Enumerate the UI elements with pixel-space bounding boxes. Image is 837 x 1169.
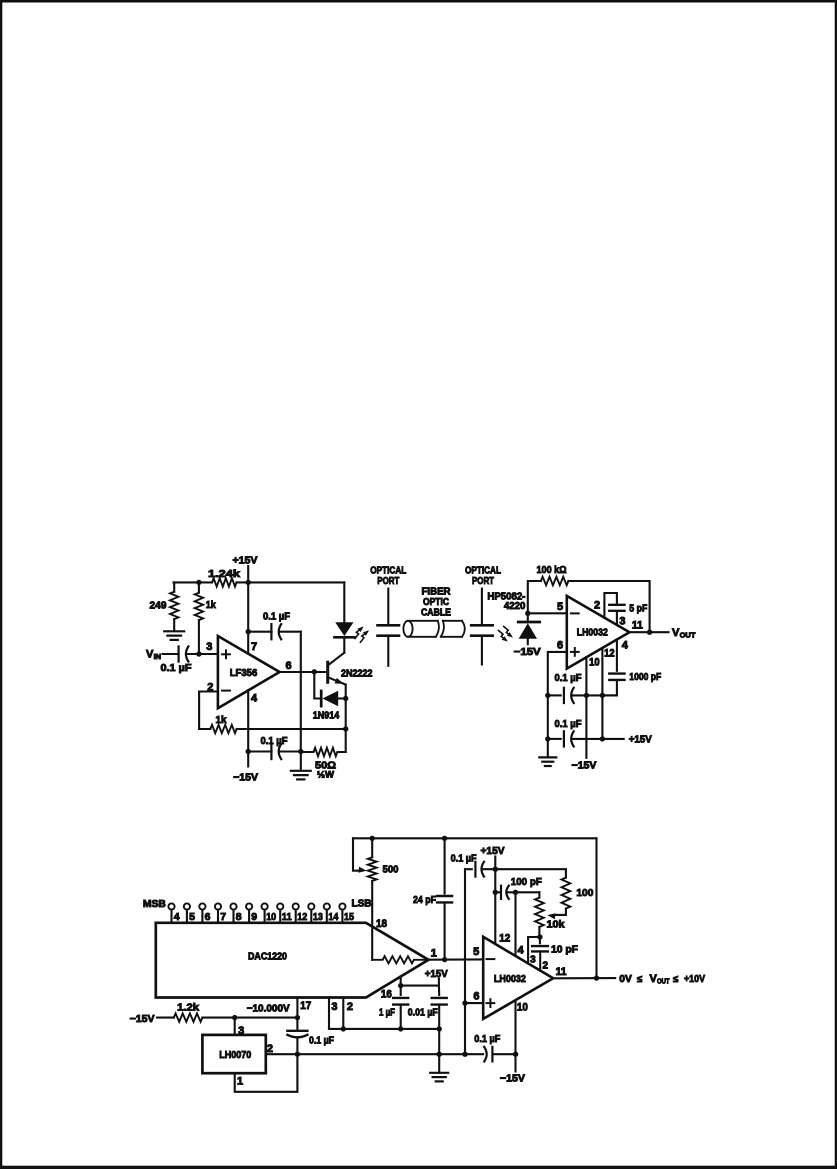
svg-text:11: 11 (282, 911, 292, 923)
node: rail/LH0070 pin3 (232, 1015, 237, 1020)
svg-text:−15V: −15V (572, 760, 597, 772)
svg-text:−15V: −15V (130, 1013, 155, 1025)
pin 11 output (630, 631, 669, 633)
wire pin 6 (548, 652, 567, 696)
op-amp U2 LH0032 (receiver) (567, 596, 630, 669)
svg-text:1.24k: 1.24k (208, 568, 240, 580)
svg-text:½W: ½W (317, 770, 334, 781)
node: pin12/100pF (493, 890, 498, 895)
wire -10.000V rail (202, 1017, 297, 1019)
node: rail/24pF (442, 836, 447, 841)
svg-text:1: 1 (431, 948, 437, 960)
voltage reference U4 LH0070 (202, 1035, 265, 1073)
wire pin 6 (bottom) (465, 1002, 483, 1004)
trim wiper arm (556, 909, 566, 915)
wire emitter vertical (345, 685, 347, 752)
resistor 100 trim (565, 869, 567, 877)
node: output/loop (594, 975, 599, 980)
wire pin 5 input (528, 612, 567, 614)
node: rail/pin12 lower (600, 736, 605, 741)
svg-text:OUT: OUT (680, 630, 696, 639)
svg-text:0.1 µF: 0.1 µF (263, 610, 291, 622)
svg-text:0.1 µF: 0.1 µF (261, 735, 289, 747)
svg-text:9: 9 (251, 911, 257, 923)
capacitor 0.1uF (+15V bypass, bottom) (474, 862, 476, 877)
pin 11 output (bottom) (553, 977, 615, 979)
resistor 1k (input divider) (198, 582, 200, 592)
capacitor 0.1uF (pin7 bypass) (248, 631, 271, 633)
wire pin 4 to -15V (247, 690, 249, 766)
svg-text:LSB: LSB (352, 898, 372, 910)
wire feedback rail to emitter (237, 728, 346, 730)
resistor 1k feedback (210, 725, 236, 733)
node: rail/pin12 (600, 693, 605, 698)
svg-text:0.1 µF: 0.1 µF (451, 852, 478, 864)
fiber optic cable drawing (403, 621, 412, 637)
svg-text:11: 11 (632, 620, 643, 632)
optical port 2 symbol (481, 589, 483, 624)
svg-text:PORT: PORT (377, 575, 399, 587)
svg-text:−10.000V: −10.000V (247, 1003, 290, 1015)
wire pin 2 (DAC) (342, 998, 344, 1029)
wire VIN to coupling cap (163, 653, 178, 655)
wire pin 10 to -15V (bottom) (514, 1000, 516, 1071)
svg-text:3: 3 (206, 641, 212, 653)
capacitor 0.1uF (lower bypass) (563, 731, 565, 746)
node: rail/pin12 (bottom) (493, 867, 498, 872)
svg-text:10: 10 (266, 911, 276, 923)
svg-text:≤: ≤ (673, 974, 678, 985)
wire pin17 to 0.1uF (296, 1018, 298, 1029)
svg-text:PORT: PORT (472, 575, 494, 587)
svg-text:+15V: +15V (233, 554, 258, 566)
node: rail/ground leg (545, 736, 550, 741)
node: emitter/1N914 (343, 696, 348, 701)
svg-text:2N2222: 2N2222 (341, 668, 373, 680)
photodiode HP5082-4220 (527, 613, 529, 621)
svg-text:1.2k: 1.2k (177, 1002, 199, 1014)
internal feedback resistor (372, 956, 428, 963)
reference rail (pin 2) (266, 1053, 483, 1055)
svg-text:12: 12 (499, 933, 510, 945)
wire pin 12 (601, 648, 603, 739)
svg-text:7: 7 (220, 911, 226, 923)
ground (receiver) (547, 739, 549, 758)
svg-text:5: 5 (557, 601, 563, 613)
capacitor 0.1uF (on -15V feed) (484, 1047, 487, 1062)
svg-text:0.1 µF: 0.1 µF (161, 662, 193, 674)
svg-text:24 pF: 24 pF (413, 894, 436, 906)
DAC output wire (429, 958, 484, 960)
right loop wire to output (595, 838, 597, 978)
svg-text:4: 4 (251, 693, 258, 705)
svg-text:5: 5 (189, 911, 195, 923)
wire cap to node 3 (187, 653, 218, 655)
node: vertical/pin6 (462, 1000, 467, 1005)
wire pin 2 feedback loop (199, 692, 218, 730)
node: rail/long vertical (462, 1052, 467, 1057)
svg-text:1000 pF: 1000 pF (629, 671, 661, 683)
svg-text:DAC1220: DAC1220 (248, 950, 287, 962)
svg-text:CABLE: CABLE (421, 607, 451, 619)
capacitor 0.01uF (438, 986, 440, 995)
wire pin7 from +15V rail (247, 582, 249, 653)
wire left vertical to +15V rail (547, 695, 549, 739)
svg-text:6: 6 (285, 660, 291, 672)
svg-text:+15V: +15V (425, 968, 448, 980)
svg-text:6: 6 (557, 640, 563, 652)
svg-text:OUT: OUT (657, 976, 670, 985)
1N914 wire from base node (314, 672, 320, 699)
DAC input pins 4-15 (168, 903, 174, 909)
svg-text:10: 10 (517, 1001, 528, 1013)
wire LH0070 pin 3 (234, 1018, 236, 1035)
node: emitter/feedback (343, 726, 348, 731)
op-amp U3 LH0032 (DAC buffer) (483, 937, 553, 1019)
svg-text:100: 100 (576, 887, 593, 899)
svg-text:100 pF: 100 pF (511, 876, 543, 888)
svg-text:18: 18 (376, 918, 387, 930)
svg-text:IN: IN (154, 652, 162, 661)
capacitor 0.1uF input coupling (178, 646, 180, 661)
ground (249 resistor) (164, 630, 184, 632)
node: base line / 1N914 tap (312, 669, 317, 674)
svg-text:LH0032: LH0032 (577, 626, 608, 638)
svg-text:LH0032: LH0032 (494, 973, 526, 985)
transistor Q1 2N2222 (326, 662, 329, 682)
wire pin 4 to 1000pF (616, 640, 618, 671)
node: pin 3 input (196, 651, 201, 656)
diode D1 1N914 (320, 691, 323, 706)
svg-text:10: 10 (589, 656, 600, 668)
node: rail/pin17 (295, 1015, 300, 1020)
svg-text:+10V: +10V (684, 973, 705, 985)
DAC ground rail (329, 1028, 439, 1030)
svg-text:LF356: LF356 (230, 667, 258, 679)
potentiometer 10k (538, 892, 540, 897)
wire pin 3 (bottom) (528, 937, 540, 963)
+15V bypass rail lower (548, 738, 561, 740)
long reference vertical (464, 869, 466, 1054)
node: 1.24k/249/1k junction (196, 580, 201, 585)
node: +15V rail / pin7 line (246, 580, 251, 585)
capacitor 24pF (444, 838, 446, 893)
wire pin 16 (400, 976, 402, 995)
wire pin 6 output to base (280, 671, 327, 673)
potentiometer 500 (371, 838, 373, 857)
capacitor 1uF (393, 997, 408, 999)
svg-text:14: 14 (328, 911, 338, 923)
resistor 50 ohm (301, 748, 346, 756)
resistor 1.2k (157, 1017, 174, 1019)
svg-text:0.1 µF: 0.1 µF (555, 672, 583, 684)
svg-text:12: 12 (604, 647, 615, 659)
top feedback rail (DAC circuit) (353, 837, 597, 839)
svg-text:+15V: +15V (629, 734, 652, 746)
svg-text:3: 3 (331, 1001, 337, 1013)
svg-text:10k: 10k (547, 919, 565, 931)
capacitor 0.1uF (upper bypass) (563, 688, 565, 703)
node: 100pF/pin4 (513, 890, 518, 895)
node: ground rail junction (298, 749, 303, 754)
svg-text:1N914: 1N914 (313, 710, 340, 722)
node: summing input (525, 611, 530, 616)
svg-text:11: 11 (556, 966, 567, 978)
wire +15V rail (174, 581, 213, 583)
svg-text:≤: ≤ (637, 974, 642, 985)
svg-text:15: 15 (344, 911, 354, 923)
svg-text:8: 8 (236, 911, 242, 923)
svg-text:100 kΩ: 100 kΩ (537, 564, 567, 576)
+15V stub to DAC supply rail (438, 979, 440, 986)
resistor 249 (173, 582, 175, 591)
optical port 1 symbol (387, 589, 389, 624)
ground (transmitter) (300, 752, 302, 771)
svg-text:4: 4 (622, 639, 629, 651)
node: rail/pin6 (545, 693, 550, 698)
DAC1220 package (156, 923, 429, 998)
wire pin 10 to -15V (585, 657, 587, 758)
svg-text:17: 17 (300, 1000, 311, 1012)
wire 5pF to pin 3 (616, 611, 618, 625)
svg-text:4: 4 (518, 945, 525, 957)
capacitor 100pF (495, 891, 500, 893)
wire pin 4 (bottom) (514, 892, 516, 956)
resistor 100k feedback loop (528, 581, 541, 613)
svg-text:−15V: −15V (514, 646, 541, 658)
svg-text:0.1 µF: 0.1 µF (474, 1033, 501, 1045)
node: rail/pin16 (398, 983, 403, 988)
svg-text:2: 2 (594, 599, 600, 611)
svg-text:10 pF: 10 pF (551, 944, 579, 956)
svg-text:1k: 1k (206, 599, 216, 611)
capacitor 0.1uF (pin4 bypass) (248, 750, 271, 752)
wire pin 3 (DAC) (328, 998, 330, 1029)
svg-text:−15V: −15V (233, 772, 258, 784)
photodiode light arrows (504, 627, 511, 637)
svg-text:12: 12 (297, 911, 307, 923)
svg-text:7: 7 (251, 641, 257, 653)
svg-text:6: 6 (205, 911, 211, 923)
pot wiper loop (353, 838, 360, 870)
upper +15V rail (bottom op amp) (465, 868, 472, 870)
node: output/feedback (647, 630, 652, 635)
node: ground rail / main rail (437, 1052, 442, 1057)
node: pot bottom (537, 934, 542, 939)
supply bypass rail upper (548, 694, 561, 696)
LH0070 pin 1 loop (235, 1054, 298, 1092)
svg-text:5 pF: 5 pF (629, 602, 647, 614)
svg-text:4: 4 (174, 911, 180, 923)
node: pin4 bypass rail (246, 749, 251, 754)
node: DAC output summing (442, 957, 447, 962)
svg-text:0.1 µF: 0.1 µF (555, 718, 583, 730)
svg-text:0.1 µF: 0.1 µF (309, 1034, 334, 1046)
resistor 1.24k (212, 578, 236, 586)
svg-text:249: 249 (150, 599, 167, 611)
svg-text:5: 5 (473, 946, 479, 958)
node: pin7 bypass tap (246, 629, 251, 634)
wire pin 12 (bottom) (494, 869, 496, 944)
op-amp U1 LF356 (218, 636, 280, 708)
svg-text:LH0070: LH0070 (219, 1049, 251, 1061)
svg-text:+15V: +15V (481, 845, 505, 857)
LED transmitter diode (343, 582, 345, 622)
node: rail/pin10 (-15V) (513, 1052, 518, 1057)
capacitor 10pF (539, 937, 541, 943)
capacitor 5pF (609, 604, 624, 606)
ground (DAC circuit) (430, 1072, 448, 1074)
svg-text:1 µF: 1 µF (379, 1007, 395, 1019)
capacitor 0.1uF (reference) (287, 1030, 307, 1032)
svg-text:6: 6 (473, 991, 479, 1003)
svg-text:0V: 0V (619, 973, 632, 985)
wire pin 17 (296, 998, 298, 1018)
node: rail/pot (370, 836, 375, 841)
node: rail/pin1 loop (295, 1052, 300, 1057)
svg-text:1k: 1k (216, 714, 227, 726)
svg-text:4220: 4220 (504, 600, 526, 612)
svg-text:16: 16 (381, 988, 392, 1000)
node: rail/pin10 (584, 693, 589, 698)
svg-text:0.01 µF: 0.01 µF (408, 1007, 438, 1019)
svg-text:−15V: −15V (500, 1073, 525, 1085)
wire pin 18 into DAC (371, 881, 373, 960)
wire bypass down-line (300, 632, 302, 752)
svg-text:3: 3 (619, 615, 625, 627)
svg-text:1: 1 (237, 1075, 243, 1087)
capacitor 1000pF (609, 672, 624, 674)
LED light arrows (355, 628, 362, 639)
svg-text:500: 500 (383, 864, 399, 876)
page border frame (0, 0, 837, 2)
svg-text:2: 2 (543, 960, 549, 971)
svg-text:2: 2 (347, 1001, 353, 1013)
svg-text:MSB: MSB (143, 898, 166, 910)
svg-text:13: 13 (313, 911, 323, 923)
pin 2 compensation loop (604, 593, 617, 618)
